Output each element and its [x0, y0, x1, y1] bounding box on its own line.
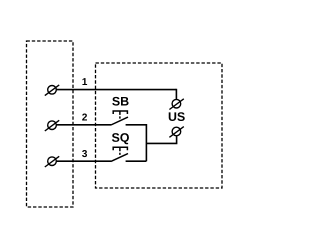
limit switch SQ label — [112, 133, 129, 144]
wire 3 horizontal to SQ pivot — [56, 160, 111, 162]
limit switch SQ contact blade — [111, 154, 128, 162]
wire SQ right contact — [126, 160, 147, 162]
wire 2 horizontal to SB pivot — [56, 124, 111, 126]
wire SB right contact — [126, 125, 147, 161]
node label 1 — [82, 78, 87, 85]
limit switch SQ actuator — [113, 147, 127, 155]
supply label US — [169, 112, 185, 121]
node label 3 — [82, 150, 87, 157]
node label 2 — [82, 114, 87, 121]
pushbutton SB actuator — [113, 111, 127, 119]
right enclosure dashed box — [96, 63, 223, 188]
pushbutton SB label — [112, 97, 128, 106]
terminal 2 — [45, 120, 59, 131]
terminal US bottom — [169, 127, 183, 138]
terminal US top — [169, 99, 183, 110]
wire junction tap to US bottom terminal — [146, 136, 176, 144]
pushbutton SB contact blade — [111, 117, 128, 125]
terminal 1 — [45, 85, 59, 96]
left enclosure dashed box — [27, 41, 74, 207]
wire 1 vertical drop to US top terminal — [175, 89, 177, 100]
terminal 3 — [45, 156, 59, 167]
wire 1 horizontal — [56, 89, 176, 91]
